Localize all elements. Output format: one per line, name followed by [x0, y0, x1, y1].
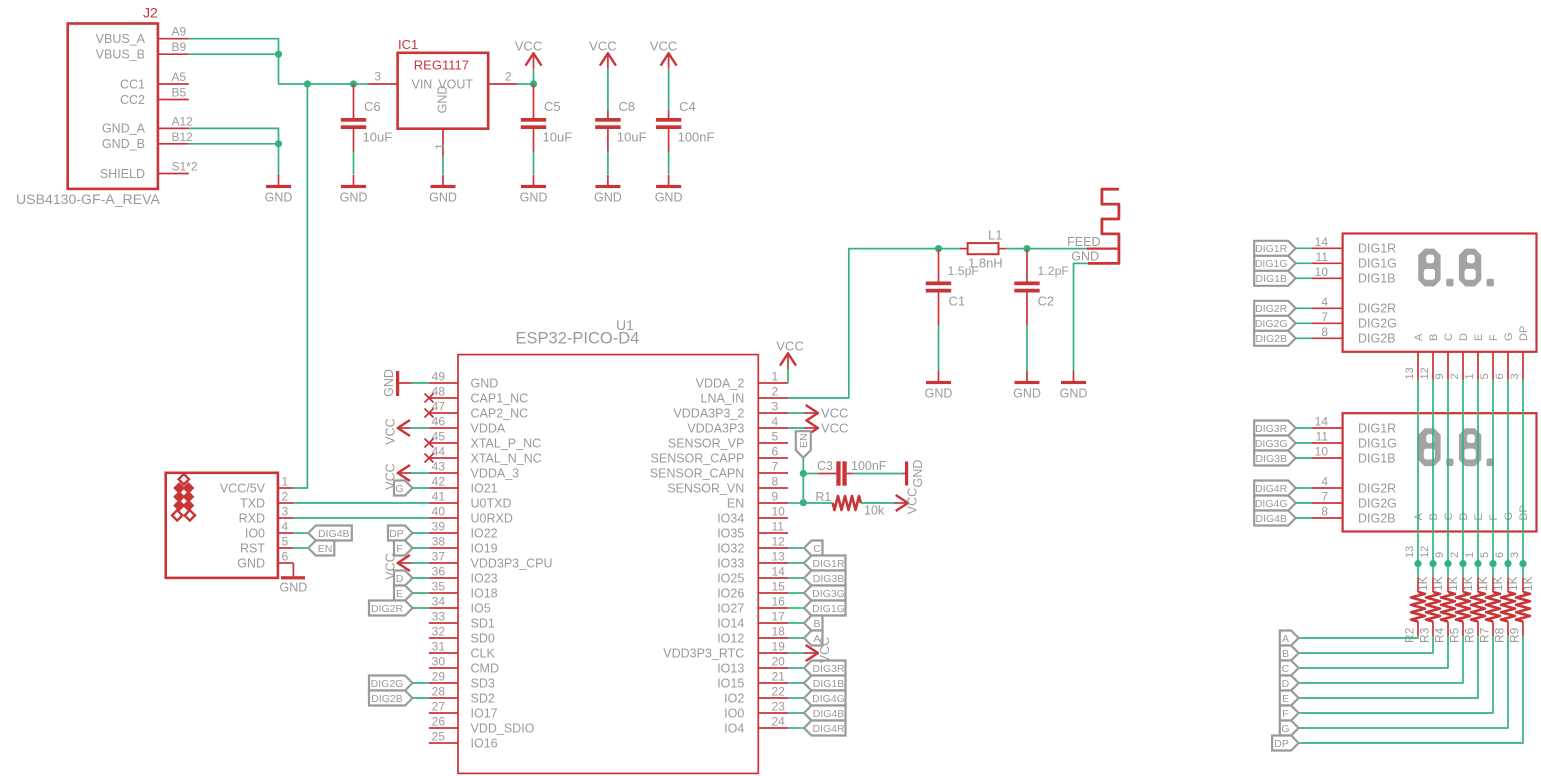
- svg-text:10uF: 10uF: [617, 130, 647, 145]
- svg-text:8: 8: [1321, 505, 1328, 519]
- svg-text:14: 14: [772, 565, 786, 579]
- svg-text:10k: 10k: [864, 504, 885, 518]
- net label A at bottom right: [1280, 631, 1299, 646]
- svg-text:C: C: [1282, 663, 1290, 675]
- svg-text:2: 2: [282, 490, 289, 504]
- net label G at U1 pin 42: [394, 481, 413, 496]
- svg-text:DIG4G: DIG4G: [812, 693, 845, 705]
- net label G at bottom right: [1280, 721, 1299, 736]
- svg-text:R2: R2: [1403, 627, 1417, 643]
- pin 5 RST of serial header: [240, 535, 293, 556]
- pin 27 IO17 of U1: [429, 700, 498, 721]
- svg-text:100nF: 100nF: [851, 459, 887, 473]
- ground symbol rotated at C3: [903, 460, 925, 488]
- svg-text:DIG2G: DIG2G: [1255, 318, 1288, 330]
- ground symbol below serial header: [280, 576, 308, 594]
- segment pin label G inside display module 1: [1503, 332, 1515, 341]
- svg-text:B: B: [1282, 648, 1289, 660]
- svg-text:CLK: CLK: [471, 646, 496, 660]
- svg-text:GND: GND: [265, 191, 293, 205]
- wire R8 to label G: [1299, 636, 1508, 728]
- serial programming header outline: [166, 473, 278, 578]
- svg-text:R5: R5: [1448, 627, 1462, 643]
- net label DIG1R at display module 1: [1254, 241, 1296, 256]
- pin 5 SENSOR_VP of U1: [668, 430, 788, 451]
- capacitor C1 1.5pF: [926, 249, 980, 325]
- svg-text:D: D: [1458, 333, 1470, 341]
- svg-text:VCC: VCC: [384, 418, 398, 444]
- svg-text:DIG4G: DIG4G: [1255, 498, 1288, 510]
- svg-text:GND_A: GND_A: [102, 122, 146, 136]
- svg-text:SENSOR_CAPP: SENSOR_CAPP: [651, 451, 745, 465]
- pin 3 VIN of IC1: [369, 70, 433, 92]
- svg-text:DIG2B: DIG2B: [1358, 332, 1396, 346]
- svg-text:9: 9: [1434, 552, 1446, 558]
- wire label DIG4B to display module 2: [1296, 517, 1312, 519]
- svg-text:39: 39: [432, 520, 446, 534]
- svg-text:C4: C4: [679, 99, 696, 114]
- net label DIG1G at U1 right side: [804, 601, 846, 616]
- pin 15 IO26 of U1: [717, 580, 788, 601]
- wire serial TXD to U1 U0TXD: [293, 502, 429, 504]
- wire serial IO0 to DIG4B label: [293, 532, 308, 534]
- pin 46 VDDA of U1: [429, 415, 506, 436]
- segment pin label F inside display module 1: [1488, 334, 1500, 341]
- wire R2 to label A: [1299, 636, 1418, 638]
- svg-text:A: A: [1413, 513, 1425, 521]
- svg-text:31: 31: [432, 640, 446, 654]
- net label DIG4G at U1 right side: [804, 691, 846, 706]
- pin 4 VDDA3P3 of U1: [687, 415, 788, 436]
- wire VCC to U1 pin 46: [411, 427, 429, 429]
- svg-text:DIG1G: DIG1G: [1358, 436, 1397, 450]
- VCC supply symbol at U1 pin 3: [805, 405, 849, 421]
- resistor R7 1K: [1478, 564, 1506, 643]
- wire segment column 12 vertical: [1432, 380, 1434, 564]
- svg-text:36: 36: [432, 565, 446, 579]
- segment pin 2 stub below display module 1: [1449, 352, 1463, 380]
- svg-text:IO23: IO23: [471, 571, 498, 585]
- svg-text:19: 19: [772, 640, 786, 654]
- net label B at U1 right side: [804, 616, 823, 631]
- net label DIG4B at U1 right side: [804, 706, 846, 721]
- pin 2 LNA_IN of U1: [701, 385, 788, 406]
- svg-text:GND: GND: [237, 556, 265, 570]
- wire U1 pin to label DIG1B: [788, 682, 804, 684]
- net label A at U1 right side: [804, 631, 823, 646]
- svg-text:LNA_IN: LNA_IN: [701, 391, 745, 405]
- svg-text:CAP2_NC: CAP2_NC: [471, 406, 529, 420]
- svg-text:IO2: IO2: [724, 691, 744, 705]
- svg-text:C2: C2: [1038, 294, 1055, 309]
- VCC supply symbol at U1 pin 19: [805, 637, 833, 663]
- voltage regulator IC1 outline: [398, 37, 489, 129]
- junction EN/C3 node: [800, 470, 807, 477]
- svg-text:3: 3: [1509, 373, 1521, 379]
- svg-text:25: 25: [432, 730, 446, 744]
- svg-text:R8: R8: [1493, 627, 1507, 643]
- pin 11 DIG1G of display module 1: [1312, 250, 1397, 271]
- pin 32 SD0 of U1: [429, 625, 495, 646]
- wire R6 to label E: [1299, 636, 1478, 698]
- svg-text:8: 8: [772, 475, 779, 489]
- svg-text:7: 7: [1321, 490, 1328, 504]
- pin 21 IO15 of U1: [717, 670, 788, 691]
- ground symbol below antenna: [1060, 371, 1088, 401]
- segment pin 12 stub below display module 2: [1419, 546, 1431, 558]
- svg-text:37: 37: [432, 550, 446, 564]
- svg-text:3: 3: [282, 505, 289, 519]
- wire C2 to ground: [1026, 325, 1028, 371]
- svg-text:XTAL_N_NC: XTAL_N_NC: [471, 451, 542, 465]
- svg-text:1: 1: [772, 370, 779, 384]
- pin 34 IO5 of U1: [429, 595, 491, 616]
- pin 40 U0RXD of U1: [429, 505, 513, 526]
- pin 14 DIG1R of display module 1: [1312, 235, 1397, 256]
- svg-text:5: 5: [1479, 552, 1491, 558]
- wire VCC to C8: [607, 69, 609, 111]
- wire C2 node to antenna FEED: [1027, 248, 1087, 250]
- svg-text:100nF: 100nF: [678, 130, 715, 145]
- wire 5V rail to C6: [307, 83, 353, 85]
- svg-text:R7: R7: [1478, 627, 1492, 643]
- pin 6 SENSOR_CAPP of U1: [651, 445, 788, 466]
- svg-text:DIG1B: DIG1B: [813, 678, 845, 690]
- svg-text:DIG2B: DIG2B: [1358, 511, 1396, 525]
- junction antenna filter node at C2: [1023, 245, 1030, 252]
- svg-text:C3: C3: [817, 459, 833, 473]
- pin 36 IO23 of U1: [429, 565, 498, 586]
- svg-text:11: 11: [1316, 250, 1329, 264]
- pin 20 IO13 of U1: [717, 655, 788, 676]
- IC U1 ESP32-PICO-D4 outline: [458, 317, 758, 773]
- VCC supply symbol at U1 pin 43: [384, 463, 412, 489]
- pin 42 IO21 of U1: [429, 475, 498, 496]
- svg-text:SENSOR_CAPN: SENSOR_CAPN: [650, 466, 744, 480]
- svg-text:GND: GND: [655, 191, 683, 205]
- svg-text:1K: 1K: [1491, 576, 1505, 591]
- svg-text:DP: DP: [389, 528, 404, 540]
- wire C6 to IC1 VIN: [354, 83, 369, 85]
- svg-text:IO4: IO4: [724, 721, 744, 735]
- svg-text:ESP32-PICO-D4: ESP32-PICO-D4: [516, 330, 640, 348]
- svg-text:VDD3P3_CPU: VDD3P3_CPU: [471, 556, 553, 570]
- svg-text:VCC: VCC: [776, 338, 803, 353]
- svg-text:B12: B12: [172, 130, 194, 144]
- svg-text:GND: GND: [429, 191, 457, 205]
- pin 4 DIG2R of display module 2: [1312, 475, 1397, 496]
- net label D at U1 left side: [394, 571, 413, 586]
- svg-text:C6: C6: [364, 99, 381, 114]
- svg-text:IO17: IO17: [471, 706, 498, 720]
- segment pin 1 stub below display module 2: [1464, 552, 1476, 558]
- net label DIG2G at U1 left side: [369, 676, 413, 691]
- svg-text:GND: GND: [925, 387, 953, 401]
- svg-text:D: D: [1282, 678, 1290, 690]
- svg-text:IO18: IO18: [471, 586, 498, 600]
- capacitor C5 10uF: [521, 84, 572, 152]
- svg-text:GND: GND: [911, 460, 925, 488]
- svg-text:VCC: VCC: [818, 637, 832, 663]
- net label DIG2G at display module 1: [1254, 316, 1296, 331]
- svg-text:D: D: [1458, 513, 1470, 521]
- net label DIG4R at display module 2: [1254, 481, 1296, 496]
- svg-text:R1: R1: [815, 490, 831, 504]
- ground symbol below C2: [1013, 371, 1041, 401]
- svg-text:DIG1R: DIG1R: [1255, 243, 1288, 255]
- svg-text:49: 49: [432, 370, 446, 384]
- wire label DIG3R to display module 2: [1296, 427, 1312, 429]
- net label DIG2R at display module 1: [1254, 301, 1296, 316]
- segment pin 2 stub below display module 2: [1449, 552, 1461, 558]
- pin 1 VDDA_2 of U1: [696, 370, 788, 391]
- wire segment column 5 vertical: [1492, 380, 1494, 564]
- svg-text:32: 32: [432, 625, 446, 639]
- svg-text:VDDA3P3: VDDA3P3: [687, 421, 744, 435]
- svg-text:GND: GND: [520, 191, 548, 205]
- pin S1*2 SHIELD of J2: [100, 160, 198, 181]
- junction segment column 6: [1504, 560, 1511, 567]
- svg-text:DIG2G: DIG2G: [1358, 496, 1397, 510]
- svg-text:DIG3B: DIG3B: [813, 573, 845, 585]
- pin 48 CAP1_NC of U1: [429, 385, 528, 406]
- pin 25 IO16 of U1: [429, 730, 498, 751]
- segment pin 3 stub below display module 1: [1509, 352, 1523, 380]
- net label DIG3G at display module 2: [1254, 436, 1296, 451]
- svg-text:9: 9: [772, 490, 779, 504]
- pin 3 VDDA3P3_2 of U1: [673, 400, 788, 421]
- svg-text:13: 13: [1404, 367, 1416, 379]
- connector J2 value label: [16, 191, 160, 207]
- svg-text:VDDA3P3_2: VDDA3P3_2: [673, 406, 744, 420]
- svg-text:33: 33: [432, 610, 446, 624]
- net label DIG1R at U1 right side: [804, 556, 846, 571]
- pin 1 VCC/5V of serial header: [220, 475, 294, 496]
- svg-text:38: 38: [432, 535, 446, 549]
- net label DIG4B at display module 2: [1254, 511, 1296, 526]
- wire U1 pin to label DIG1R: [788, 562, 804, 564]
- svg-text:DIG4B: DIG4B: [318, 528, 350, 540]
- pin 4 DIG2R of display module 1: [1312, 295, 1397, 316]
- svg-text:DIG1G: DIG1G: [812, 603, 845, 615]
- svg-text:GND: GND: [382, 369, 396, 397]
- net label DIG1B at display module 1: [1254, 271, 1296, 286]
- svg-text:A5: A5: [172, 70, 187, 84]
- wire VBUS down to 5V rail: [279, 54, 308, 84]
- svg-text:7: 7: [772, 460, 779, 474]
- net label F at bottom right: [1280, 706, 1299, 721]
- resistor R4 1K: [1433, 564, 1461, 643]
- wire GND from J2 A12: [189, 128, 279, 143]
- svg-text:DIG1B: DIG1B: [1358, 451, 1396, 465]
- svg-text:IC1: IC1: [398, 37, 418, 52]
- wire VCC to U1 pin 43: [411, 472, 429, 474]
- svg-text:DIG1R: DIG1R: [812, 558, 845, 570]
- svg-text:DP: DP: [1518, 326, 1530, 341]
- svg-text:VBUS_A: VBUS_A: [96, 32, 146, 46]
- wire R7 to label F: [1299, 636, 1493, 713]
- svg-text:CMD: CMD: [471, 661, 499, 675]
- svg-text:VDD3P3_RTC: VDD3P3_RTC: [663, 646, 744, 660]
- net label E at U1 left side: [394, 586, 413, 601]
- wire label D to U1 pin: [413, 577, 429, 579]
- wire label DIG4G to display module 2: [1296, 502, 1312, 504]
- resistor R5 1K: [1448, 564, 1476, 643]
- svg-text:6: 6: [1494, 552, 1506, 558]
- segment pin 13 stub below display module 2: [1404, 546, 1416, 558]
- pin A5 CC1 of J2: [120, 70, 189, 91]
- net label DP at bottom right: [1272, 736, 1299, 751]
- svg-text:DIG4R: DIG4R: [812, 723, 845, 735]
- wire node to L1: [939, 248, 960, 250]
- capacitor C6 10uF: [341, 84, 392, 152]
- svg-text:26: 26: [432, 715, 446, 729]
- svg-text:DIG3R: DIG3R: [812, 663, 845, 675]
- svg-text:GND: GND: [436, 86, 450, 114]
- svg-text:DP: DP: [1274, 738, 1289, 750]
- svg-text:14: 14: [1315, 415, 1329, 429]
- segment pin label C inside display module 2: [1443, 513, 1455, 521]
- svg-text:2: 2: [505, 70, 512, 84]
- wire label DIG1G to display module 1: [1296, 262, 1312, 264]
- svg-text:5: 5: [282, 535, 289, 549]
- pin A9 VBUS_A of J2: [96, 25, 189, 46]
- svg-text:R6: R6: [1463, 627, 1477, 643]
- svg-text:SD0: SD0: [471, 631, 495, 645]
- net label DP at U1 left side: [388, 526, 413, 541]
- svg-text:8: 8: [1321, 325, 1328, 339]
- pin 24 IO4 of U1: [724, 715, 788, 736]
- wire C3 to ground: [853, 473, 904, 475]
- svg-text:4: 4: [1321, 475, 1328, 489]
- svg-text:4: 4: [282, 520, 289, 534]
- segment pin label DP inside display module 1: [1518, 326, 1530, 341]
- wire 5V rail down to serial header pin 1: [293, 84, 307, 488]
- pin 4 IO0 of serial header: [245, 520, 294, 541]
- wire U1 pin to label DIG4G: [788, 697, 804, 699]
- svg-text:IO15: IO15: [717, 676, 744, 690]
- net label DIG2B at display module 1: [1254, 331, 1296, 346]
- wire segment column 1 vertical: [1477, 380, 1479, 564]
- svg-text:RXD: RXD: [239, 511, 265, 525]
- svg-text:45: 45: [432, 430, 446, 444]
- segment pin label F inside display module 2: [1488, 514, 1500, 521]
- svg-text:G: G: [1503, 332, 1515, 341]
- net label EN vertical above junction: [796, 431, 811, 458]
- svg-text:S1*2: S1*2: [172, 160, 198, 174]
- svg-text:IO19: IO19: [471, 541, 498, 555]
- pin 8 SENSOR_VN of U1: [667, 475, 788, 496]
- svg-text:1: 1: [282, 475, 289, 489]
- net label DIG4R at U1 right side: [804, 721, 846, 736]
- pin 2 TXD of serial header: [240, 490, 293, 511]
- svg-text:29: 29: [432, 670, 446, 684]
- svg-text:CC1: CC1: [120, 77, 145, 91]
- svg-text:B9: B9: [172, 40, 187, 54]
- svg-text:CC2: CC2: [120, 93, 145, 107]
- svg-text:IO27: IO27: [717, 601, 744, 615]
- svg-text:DIG3R: DIG3R: [1255, 423, 1288, 435]
- no-connect mark at U1 pin 47: [425, 409, 434, 418]
- segment pin label DP inside display module 2: [1518, 505, 1530, 520]
- svg-text:E: E: [1473, 513, 1485, 520]
- svg-text:30: 30: [432, 655, 446, 669]
- wire segment column 2 vertical: [1462, 380, 1464, 564]
- svg-text:J2: J2: [143, 5, 158, 21]
- svg-text:VCC: VCC: [906, 488, 920, 514]
- pin 49 GND of U1: [429, 370, 498, 391]
- svg-text:24: 24: [772, 715, 786, 729]
- net label DIG3R at U1 right side: [804, 661, 846, 676]
- wire U1 pin to label B: [788, 622, 804, 624]
- svg-text:SD2: SD2: [471, 691, 495, 705]
- svg-text:1K: 1K: [1431, 576, 1445, 591]
- pin 8 DIG2B of display module 1: [1312, 325, 1396, 346]
- svg-text:DIG3B: DIG3B: [1255, 453, 1287, 465]
- svg-text:10: 10: [772, 505, 786, 519]
- svg-text:DIG1R: DIG1R: [1358, 242, 1396, 256]
- VCC supply symbol at R1: [895, 488, 920, 514]
- pin B12 GND_B of J2: [102, 130, 193, 151]
- svg-text:VCC: VCC: [821, 420, 848, 435]
- svg-text:5: 5: [1479, 373, 1491, 379]
- junction EN/R1 node: [800, 499, 807, 506]
- VCC supply symbol above C4: [650, 38, 677, 69]
- svg-text:F: F: [396, 543, 402, 555]
- segment pin label C inside display module 1: [1443, 333, 1455, 341]
- junction segment column 12: [1429, 560, 1436, 567]
- svg-text:VDDA_2: VDDA_2: [696, 376, 745, 390]
- svg-text:IO12: IO12: [717, 631, 744, 645]
- wire serial GND jog to ground: [292, 563, 294, 576]
- segment pin label E inside display module 2: [1473, 513, 1485, 520]
- svg-text:DIG4R: DIG4R: [1255, 483, 1288, 495]
- pin 14 IO25 of U1: [717, 565, 788, 586]
- wire U1 pin 19 to VCC: [788, 652, 806, 654]
- wire IC1 VOUT to VCC node: [517, 83, 533, 85]
- svg-text:G: G: [1281, 723, 1289, 735]
- wire label DIG2R to display module 1: [1296, 307, 1312, 309]
- svg-text:11: 11: [772, 520, 785, 534]
- net label D at bottom right: [1280, 676, 1299, 691]
- pin B9 VBUS_B of J2: [96, 40, 189, 61]
- svg-text:C5: C5: [544, 99, 561, 114]
- wire label DP to U1 pin: [413, 532, 429, 534]
- svg-text:IO22: IO22: [471, 526, 498, 540]
- wire C1 to ground: [938, 325, 940, 371]
- svg-text:VDDA_3: VDDA_3: [471, 466, 520, 480]
- svg-text:11: 11: [1316, 430, 1329, 444]
- svg-text:F: F: [1488, 334, 1500, 341]
- svg-text:F: F: [1488, 514, 1500, 521]
- pin 16 IO27 of U1: [717, 595, 788, 616]
- wire label G to U1 pin 42: [413, 487, 429, 489]
- pin 35 IO18 of U1: [429, 580, 498, 601]
- svg-text:REG1117: REG1117: [414, 58, 469, 73]
- wire label DIG2B to U1 pin: [413, 697, 429, 699]
- svg-text:1K: 1K: [1521, 576, 1535, 591]
- svg-text:E: E: [1282, 693, 1289, 705]
- junction segment column 5: [1489, 560, 1496, 567]
- wire to GND symbol below J2: [278, 144, 280, 176]
- ground symbol below C1: [925, 371, 953, 401]
- svg-text:1K: 1K: [1446, 576, 1460, 591]
- svg-text:U0TXD: U0TXD: [471, 496, 512, 510]
- svg-text:48: 48: [432, 385, 446, 399]
- svg-text:GND: GND: [1060, 387, 1088, 401]
- pin 18 IO12 of U1: [717, 625, 788, 646]
- inductor L1 1.8nH: [960, 228, 1006, 271]
